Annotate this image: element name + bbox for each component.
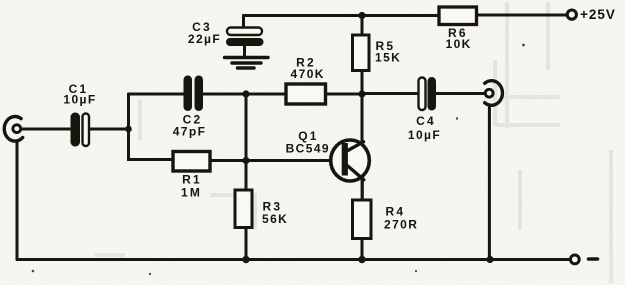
junction R3 bottom on ground rail xyxy=(242,256,249,263)
speckle dots xyxy=(32,44,525,276)
resistor R6 xyxy=(439,7,477,51)
transistor Q1 xyxy=(286,129,370,200)
wire C4 to output jack xyxy=(436,92,486,95)
output jack xyxy=(485,81,503,106)
svg-text:10µF: 10µF xyxy=(408,128,441,142)
ground xyxy=(225,58,269,69)
svg-text:C4: C4 xyxy=(416,114,436,128)
terminal +25V xyxy=(567,7,616,22)
wire C2 to base node xyxy=(203,93,286,96)
capacitor C2 xyxy=(173,76,207,139)
resistor R3 xyxy=(235,190,288,228)
junction R1 right / Q1 base / R3 top xyxy=(242,157,249,164)
junction node A (C1 / C2 / R1) xyxy=(125,126,132,133)
resistor R4 xyxy=(353,200,419,239)
svg-text:10µF: 10µF xyxy=(63,93,96,107)
svg-text:270R: 270R xyxy=(384,218,418,232)
svg-text:BC549: BC549 xyxy=(286,141,330,155)
wire R4 to ground rail xyxy=(361,239,364,260)
junction C2 right / R2 left column xyxy=(242,90,249,97)
svg-text:470K: 470K xyxy=(291,67,325,81)
wire node A column xyxy=(129,94,174,160)
capacitor C1 xyxy=(63,82,96,147)
terminal negative xyxy=(570,255,597,264)
wire base node column (C2/R2 row down through R3 to ground rail) xyxy=(245,94,248,260)
junction supply rail / R5 top xyxy=(358,12,365,19)
wire node A to C2 xyxy=(129,93,184,96)
wire C1 to node A column xyxy=(90,128,129,131)
wire collector column (R5 bottom to Q1 collector) xyxy=(361,16,364,145)
junction output drop on ground rail xyxy=(486,256,493,263)
resistor R2 xyxy=(286,56,326,105)
svg-text:56K: 56K xyxy=(262,212,288,226)
capacitor C3 xyxy=(188,16,264,58)
top rail wire xyxy=(244,14,567,18)
wire R1 to Q1 base xyxy=(210,159,341,162)
junction collector node (R2 / R5 / C4) xyxy=(358,90,365,97)
svg-text:R1: R1 xyxy=(182,173,202,187)
capacitor C4 xyxy=(408,77,441,142)
svg-text:R4: R4 xyxy=(386,205,406,219)
wire output jack drop xyxy=(488,106,491,260)
wire input-jack drop xyxy=(16,141,19,260)
wire collector node to C4 xyxy=(362,92,419,95)
wire input to C1 xyxy=(21,128,71,131)
svg-text:10K: 10K xyxy=(446,37,472,51)
resistor R1 xyxy=(173,152,210,200)
junction R4 bottom on ground rail xyxy=(358,256,365,263)
bottom rail wire xyxy=(17,258,570,261)
resistor R5 xyxy=(353,35,402,71)
wire R2 to collector node xyxy=(326,93,363,96)
svg-text:22µF: 22µF xyxy=(188,32,221,46)
svg-text:47pF: 47pF xyxy=(173,125,207,139)
svg-text:+25V: +25V xyxy=(580,7,616,22)
input jack xyxy=(4,117,22,142)
svg-text:1M: 1M xyxy=(181,186,202,200)
svg-text:15K: 15K xyxy=(375,51,401,65)
